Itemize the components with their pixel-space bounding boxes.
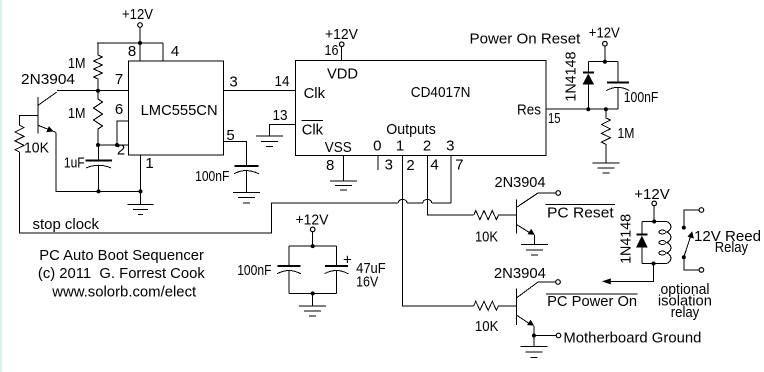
node relay bottom junction [652, 262, 656, 266]
svg-text:3: 3 [446, 138, 454, 155]
wire output0 pin3 stub [377, 156, 379, 171]
svg-text:8: 8 [326, 157, 334, 174]
svg-text:2: 2 [406, 157, 414, 174]
node 1uF bottom junction [97, 189, 101, 193]
svg-text:1M: 1M [618, 125, 635, 142]
title text block [38, 247, 205, 301]
svg-text:4: 4 [430, 157, 438, 174]
svg-text:1N4148: 1N4148 [563, 52, 580, 102]
svg-text:CD4017N: CD4017N [411, 84, 471, 101]
ground (4017 pin13) [256, 136, 283, 147]
PC Reset label with overline [546, 205, 615, 222]
svg-text:1N4148: 1N4148 [618, 214, 635, 264]
wire Q3 collector to terminal [538, 281, 556, 283]
wire relay bottom rail [642, 263, 666, 265]
wire Q1 base [20, 116, 39, 126]
wire bottom rail (PoR) [588, 108, 618, 110]
node: +12V rail junction [138, 41, 142, 45]
node top rail junction [603, 60, 607, 64]
node pin15 junction [586, 107, 590, 111]
wire pin13 to ground [270, 124, 296, 135]
wire +12V terminal to top rail [139, 27, 141, 43]
svg-text:16V: 16V [356, 274, 378, 291]
wire stop clock run [20, 152, 399, 233]
wire bypass bottom rail [289, 292, 336, 294]
overline for Clk-bar [302, 120, 323, 122]
svg-text:+12V: +12V [325, 26, 358, 43]
node emitter junction [532, 334, 536, 338]
svg-text:15: 15 [548, 110, 561, 127]
wire mid segment [407, 202, 423, 204]
ground (555 pin5 cap) [233, 192, 260, 203]
svg-text:6: 6 [115, 101, 123, 118]
relay coil L1 [659, 222, 671, 264]
resistor R 10K (Q1 base) [15, 125, 49, 156]
wire pin8 stub [139, 43, 141, 61]
svg-text:2N3904: 2N3904 [495, 174, 546, 191]
svg-text:+12V: +12V [634, 186, 669, 203]
wire +12V down to rail [312, 232, 314, 246]
wire pin7 line [57, 90, 129, 92]
reed switch arm [684, 231, 694, 257]
node 1M junction [604, 107, 608, 111]
svg-text:stop clock: stop clock [33, 216, 100, 233]
wire Q2 collector to terminal [538, 192, 556, 194]
svg-text:100nF: 100nF [195, 168, 229, 185]
power terminal +12V (4017 supply) [325, 26, 358, 47]
svg-text:10K: 10K [475, 228, 498, 245]
svg-text:14: 14 [275, 73, 290, 90]
svg-text:1: 1 [396, 138, 404, 155]
wire bypass top rail [289, 245, 336, 247]
svg-text:Power On Reset: Power On Reset [470, 31, 582, 48]
node pin7 junction [96, 89, 100, 93]
svg-text:Res: Res [517, 102, 541, 119]
wire +12V down [604, 46, 606, 62]
resistor R 10K (Q2 base) [474, 211, 517, 246]
reed switch bottom contact [682, 255, 704, 272]
power terminal +12V (555 supply) [122, 6, 153, 27]
capacitor C 47uF 16V (bypass) [324, 246, 385, 293]
transistor Q2 2N3904 [495, 174, 546, 235]
node bypass top junction [311, 244, 315, 248]
svg-text:Motherboard Ground: Motherboard Ground [563, 330, 701, 347]
resistor R 10K (Q3 base) [474, 301, 517, 335]
svg-text:3: 3 [229, 74, 237, 91]
svg-text:Clk: Clk [302, 122, 324, 139]
resistor R 1M (top) [68, 43, 103, 91]
svg-text:PC Power On: PC Power On [547, 293, 637, 310]
svg-text:1M: 1M [68, 105, 86, 122]
node junction pin6/pin2 [115, 143, 119, 147]
diode D1 1N4148 [563, 52, 595, 110]
transistor Q1 2N3904 [21, 71, 75, 133]
wire top rail (PoR) [588, 61, 618, 63]
svg-text:1uF: 1uF [64, 155, 85, 172]
resistor R 1M (second) [68, 91, 103, 145]
ground (4017 VSS) [330, 181, 357, 190]
12V Reed Relay label [694, 228, 761, 256]
svg-text:Clk: Clk [304, 85, 326, 102]
capacitor C 100nF (PoR) [606, 62, 658, 109]
svg-text:LMC555CN: LMC555CN [141, 102, 218, 119]
transistor Q3 2N3904 [494, 265, 546, 326]
PC Power On label with overline [546, 293, 637, 310]
left edge tint strip [0, 0, 2, 372]
svg-text:7: 7 [455, 157, 463, 174]
wire pin6 step [117, 121, 129, 145]
svg-text:www.solorb.com/elect: www.solorb.com/elect [51, 283, 197, 300]
svg-text:PC Reset: PC Reset [547, 205, 615, 222]
svg-text:100nF: 100nF [237, 262, 271, 279]
node pin1/ground junction [139, 189, 143, 193]
wire output3 pin7 stub [450, 156, 452, 204]
ground (PoR 1M) [592, 163, 619, 173]
svg-text:2N3904: 2N3904 [494, 265, 546, 282]
op-amp/timer U1 LMC555CN box [129, 61, 224, 155]
capacitor C 100nF (bypass) [237, 246, 301, 293]
wire output2 pin4 to Q2 base resistor [427, 156, 473, 216]
wire hop over pin2 line [398, 199, 407, 203]
node relay top junction [652, 220, 656, 224]
svg-text:PC Auto Boot Sequencer: PC Auto Boot Sequencer [39, 247, 204, 264]
svg-text:VDD: VDD [327, 65, 358, 82]
svg-text:Relay: Relay [715, 239, 749, 256]
svg-text:4: 4 [171, 43, 179, 60]
node bypass bottom junction [311, 291, 315, 295]
ground (bypass) [299, 293, 326, 316]
wire output1 pin2 to Q3 base resistor [403, 156, 474, 306]
wire relay to PC Power On with arrow [604, 264, 654, 282]
wire pin4 stub [162, 43, 164, 61]
IC U2 CD4017N box [295, 61, 546, 157]
power terminal +12V (power-on-reset) [589, 25, 620, 47]
svg-text:10K: 10K [24, 140, 49, 157]
svg-text:3: 3 [385, 157, 393, 174]
wire Q3 emitter down [533, 326, 535, 336]
wire 555 pin5 to C [223, 142, 246, 166]
svg-text:2: 2 [423, 138, 431, 155]
wire pin15 to reset node [546, 108, 588, 110]
wire Q2 emitter to ground [534, 235, 536, 245]
svg-text:Outputs: Outputs [386, 121, 436, 138]
optional isolation relay label [658, 281, 712, 321]
wire relay top rail [642, 221, 666, 223]
svg-text:2: 2 [117, 142, 125, 159]
wire top rail [97, 42, 163, 44]
wire to output3 [432, 202, 451, 204]
capacitor C 1uF [64, 145, 112, 191]
wire to motherboard ground terminal [534, 335, 556, 337]
svg-text:100nF: 100nF [624, 89, 659, 106]
wire pin2 line [98, 144, 129, 146]
power terminal +12V (relay) [634, 186, 669, 206]
reed switch top contact [682, 208, 704, 230]
wire hop over pin4 line [423, 199, 432, 203]
svg-text:VSS: VSS [325, 139, 352, 156]
ground (555 pin1) [128, 191, 154, 214]
terminal Motherboard Ground [556, 333, 561, 338]
wire pin1 stub [140, 155, 142, 191]
wire +12V down [653, 206, 655, 222]
ground (Q3) [520, 347, 547, 358]
resistor R 1M (PoR) [601, 109, 634, 163]
diode D2 1N4148 [618, 214, 648, 264]
svg-text:16: 16 [325, 42, 339, 59]
capacitor C 100nF (555 pin5) [195, 166, 259, 192]
svg-text:(c) 2011 G. Forrest Cook: (c) 2011 G. Forrest Cook [38, 265, 205, 282]
svg-text:+12V: +12V [589, 25, 620, 42]
wire Q1 emitter down [56, 132, 141, 191]
terminal PC Reset [556, 191, 561, 196]
svg-text:1M: 1M [68, 55, 86, 72]
svg-text:+: + [343, 252, 352, 269]
svg-text:7: 7 [115, 71, 123, 88]
terminal PC Power On [556, 280, 561, 285]
svg-text:relay: relay [671, 304, 700, 321]
svg-text:5: 5 [226, 127, 234, 144]
power terminal +12V (bypass caps) [296, 212, 329, 232]
wire 555 pin3 to 4017 pin14 [223, 89, 295, 91]
svg-text:10K: 10K [475, 318, 499, 335]
svg-text:0: 0 [373, 138, 381, 155]
svg-text:1: 1 [145, 155, 153, 172]
svg-text:+12V: +12V [122, 6, 153, 23]
node junction at R/C [96, 143, 100, 147]
svg-text:13: 13 [273, 107, 288, 124]
ground (Q2) [521, 245, 548, 256]
svg-text:8: 8 [128, 43, 136, 60]
wire pin16 stub [341, 47, 343, 61]
svg-text:+12V: +12V [296, 212, 329, 229]
wire VSS pin8 stub [342, 156, 344, 181]
wire Q3 ground stub [533, 336, 535, 347]
svg-text:2N3904: 2N3904 [21, 71, 75, 88]
